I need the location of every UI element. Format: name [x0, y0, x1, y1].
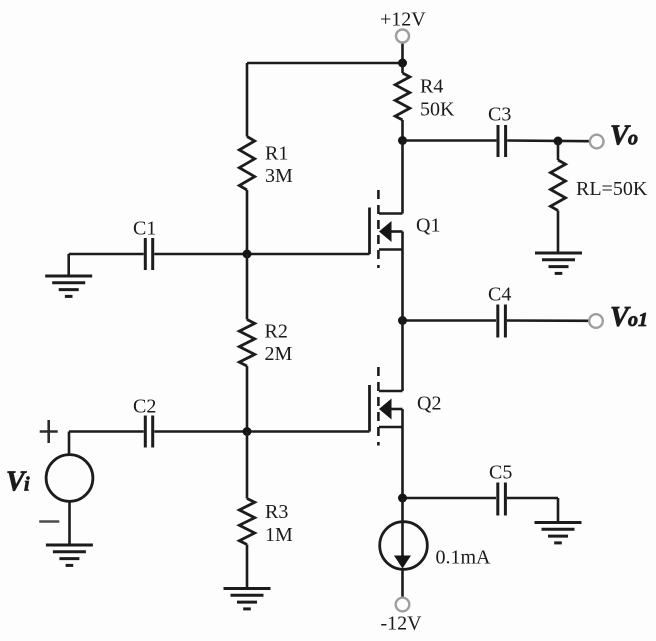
svg-text:R4: R4: [420, 76, 443, 98]
svg-text:1M: 1M: [265, 524, 293, 546]
svg-text:i: i: [24, 474, 30, 496]
svg-text:C5: C5: [489, 462, 512, 484]
svg-text:RL=50K: RL=50K: [576, 178, 648, 200]
svg-text:C2: C2: [133, 396, 156, 418]
svg-text:-12V: -12V: [381, 613, 423, 635]
svg-text:o1: o1: [628, 309, 648, 331]
svg-text:3M: 3M: [265, 165, 293, 187]
svg-text:Q1: Q1: [416, 215, 440, 237]
svg-text:0.1mA: 0.1mA: [436, 547, 492, 569]
svg-text:o: o: [628, 128, 638, 150]
svg-text:Q2: Q2: [417, 393, 441, 415]
svg-text:C4: C4: [488, 284, 511, 306]
svg-text:R1: R1: [265, 143, 288, 165]
svg-text:2M: 2M: [265, 343, 293, 365]
svg-text:C3: C3: [488, 104, 511, 126]
svg-text:R2: R2: [265, 321, 288, 343]
svg-text:50K: 50K: [420, 99, 455, 121]
svg-text:R3: R3: [265, 501, 288, 523]
svg-text:+12V: +12V: [380, 9, 426, 31]
svg-text:C1: C1: [133, 218, 156, 240]
